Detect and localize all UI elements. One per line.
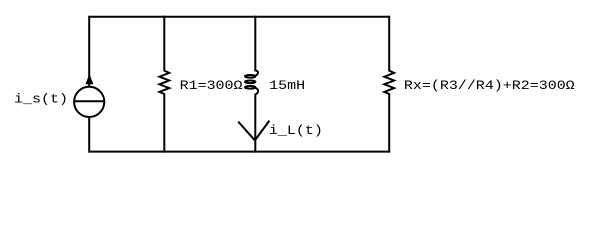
svg-text:Rx=(R3//R4)+R2=300Ω: Rx=(R3//R4)+R2=300Ω	[404, 79, 575, 94]
current source U1 i_s	[74, 87, 104, 117]
inductor L1 wire bottom	[254, 94, 256, 153]
current arrow i_L	[238, 121, 269, 141]
wire top rail	[89, 16, 389, 18]
svg-text:i_s(t): i_s(t)	[14, 92, 68, 107]
svg-text:i_L(t): i_L(t)	[269, 124, 323, 139]
resistor R1	[159, 16, 169, 153]
inductor L1 coil	[245, 70, 258, 94]
wire bottom rail	[89, 151, 389, 153]
svg-text:R1=300Ω: R1=300Ω	[180, 79, 243, 94]
arrowhead of current source	[85, 74, 93, 84]
resistor Rx	[384, 16, 394, 153]
inductor L1 wire top	[254, 16, 256, 71]
wire left edge	[88, 16, 90, 153]
svg-text:15mH: 15mH	[269, 79, 305, 94]
